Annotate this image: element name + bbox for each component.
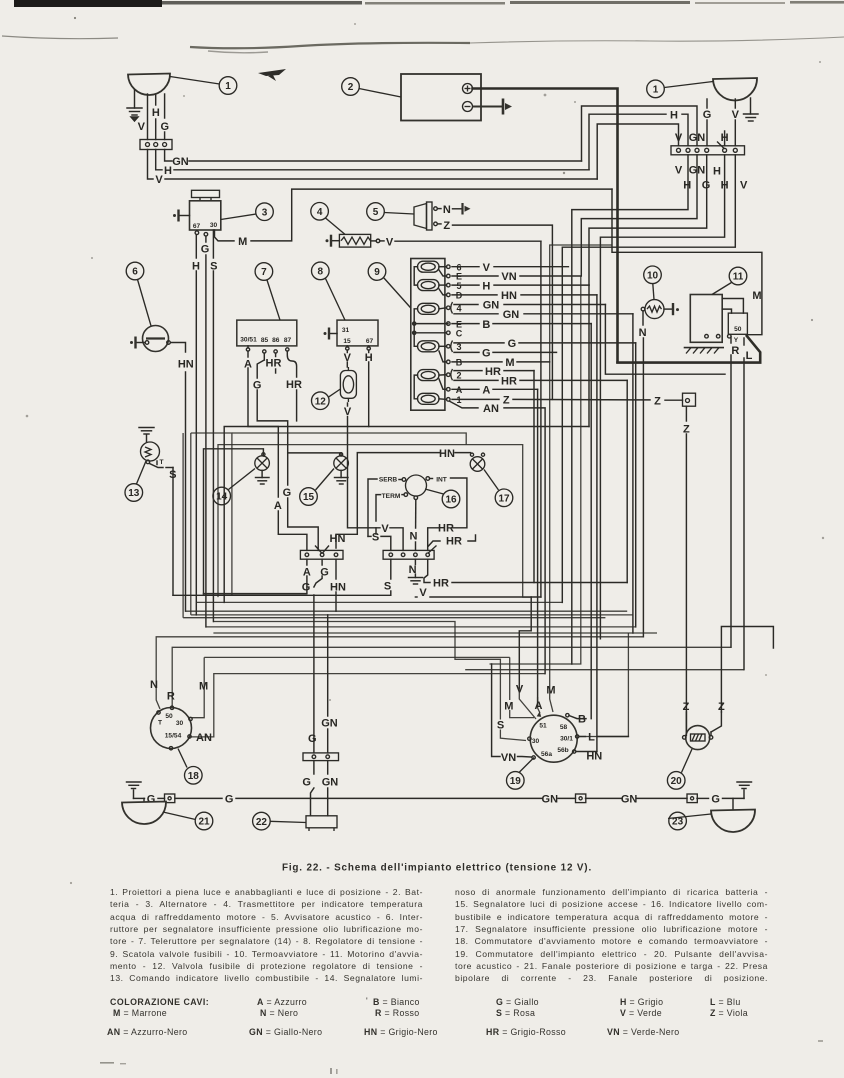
svg-text:A: A [535, 700, 543, 712]
svg-text:V: V [675, 165, 683, 177]
svg-text:18: 18 [188, 771, 200, 782]
svg-text:30/1: 30/1 [560, 736, 573, 743]
connector G/GN (above item 22) [303, 753, 339, 761]
wire frame rect outer [191, 433, 466, 595]
svg-text:G: G [508, 338, 517, 350]
svg-text:B: B [578, 714, 586, 726]
wire R from starter down [730, 337, 732, 647]
lamp 15 ground [335, 470, 349, 484]
fuel gauge (item 16) [402, 475, 430, 500]
rail VN y664 [490, 276, 581, 664]
svg-text:1: 1 [653, 85, 659, 96]
scan artifact scratch line [2, 36, 844, 53]
rail connector box 3 [687, 794, 697, 803]
wire Z right of button [711, 627, 773, 736]
svg-text:N: N [150, 679, 158, 691]
callout circle 11 [712, 267, 747, 294]
wire HR second [429, 535, 476, 546]
wire frame rail G jog [257, 420, 288, 422]
wire fuse row G lower [454, 351, 557, 353]
Z connector box [683, 393, 696, 406]
bottom rail wire [134, 797, 745, 799]
svg-text:13: 13 [128, 488, 140, 499]
bottom rail ground right [737, 782, 752, 798]
wire fuse row GN lower [454, 314, 633, 633]
svg-text:Fig. 22. - Schema dell'impiant: Fig. 22. - Schema dell'impianto elettric… [282, 863, 592, 874]
callout circle 6 [126, 262, 151, 326]
svg-text:V: V [516, 684, 524, 696]
svg-text:H: H [683, 180, 691, 192]
lamp 15 feed wire [288, 453, 341, 456]
svg-text:G: G [711, 794, 720, 806]
svg-text:HR: HR [433, 578, 449, 590]
wire S from alternator down [212, 230, 214, 622]
svg-text:A: A [303, 566, 311, 578]
callout circle 4 [311, 203, 345, 235]
svg-text:HN: HN [439, 448, 455, 460]
svg-text:19: 19 [510, 776, 522, 787]
rail AN y673.6 [191, 674, 545, 737]
svg-text:Z: Z [683, 701, 690, 713]
svg-text:GN: GN [689, 132, 706, 144]
item 6 ground lead [130, 337, 144, 349]
svg-text:S: S [384, 580, 391, 592]
svg-text:4: 4 [317, 207, 323, 218]
rail y602 [196, 601, 562, 603]
svg-text:H: H [670, 109, 678, 121]
svg-text:2: 2 [348, 82, 354, 93]
svg-text:HR: HR [438, 523, 454, 535]
wire N from item 10 [642, 311, 644, 637]
svg-text:A: A [244, 359, 252, 371]
wire INT to HR [428, 478, 467, 550]
wire HN to lamp 17 [336, 453, 471, 548]
svg-text:56b: 56b [557, 747, 568, 754]
tail lamp (item 23) [711, 798, 755, 832]
svg-text:G: G [201, 244, 210, 256]
svg-text:G: G [302, 581, 311, 593]
svg-text:G: G [253, 380, 262, 392]
svg-text:11: 11 [733, 272, 744, 283]
bottom rail ground left [127, 782, 142, 798]
svg-text:14: 14 [216, 492, 228, 503]
svg-text:10: 10 [647, 271, 659, 282]
rail R y647.3 [172, 647, 731, 707]
wire HR hook from relay 87 [287, 351, 296, 421]
ground of left headlamp [127, 90, 142, 121]
svg-text:C: C [456, 329, 463, 339]
connector strip right (under gauge) [383, 546, 436, 560]
wire pin2 drop to V trunk [572, 155, 688, 664]
bottom scan marks [100, 1040, 823, 1074]
starter terminals [705, 334, 731, 338]
wire lamp G pin [164, 94, 166, 140]
wire fuse row Z [452, 398, 683, 401]
fuse box pins [447, 265, 451, 401]
starter ground hatch [684, 348, 724, 354]
svg-text:G: G [283, 487, 292, 499]
fuse links to pins [439, 267, 447, 400]
svg-text:56a: 56a [541, 751, 552, 758]
svg-text:N: N [443, 204, 451, 216]
svg-text:HR: HR [446, 536, 462, 548]
svg-text:6: 6 [132, 267, 138, 278]
svg-text:23: 23 [672, 817, 684, 828]
rail S y621.5 [213, 622, 526, 741]
svg-text:G: G [482, 348, 491, 360]
svg-text:HN: HN [178, 359, 194, 371]
wire V jog to switch 19 [519, 597, 531, 688]
pilot lamp (item 17) [470, 453, 485, 471]
svg-text:H: H [365, 352, 373, 364]
callout circle 22 [253, 812, 306, 830]
svg-text:3: 3 [262, 207, 268, 218]
svg-text:H: H [152, 107, 160, 119]
callout circle 21 [163, 812, 213, 830]
wire pin4 drop to H trunk [589, 155, 707, 285]
connector block left lamp [140, 140, 172, 150]
svg-text:7: 7 [261, 267, 267, 278]
svg-text:HN: HN [501, 290, 517, 302]
light switch commutatore (item 19) [528, 711, 579, 762]
svg-text:51: 51 [539, 723, 547, 730]
svg-text:15/54: 15/54 [165, 733, 182, 740]
svg-text:H: H [192, 260, 200, 272]
svg-text:GN: GN [172, 156, 189, 168]
svg-text:R: R [167, 690, 175, 702]
callout circle 1 right [647, 80, 713, 98]
resistor (item 4) [339, 234, 370, 247]
wire M trunk to starter [612, 189, 762, 335]
svg-text:GN: GN [621, 794, 638, 806]
fuse valvola fusibile (item 12) [340, 367, 356, 402]
svg-text:9: 9 [374, 267, 380, 278]
alternator terminals [195, 231, 208, 236]
callout circle 14 [213, 469, 255, 505]
connector strip left (under lamps) [300, 546, 343, 560]
wire A from relay 30/51 [248, 346, 307, 551]
svg-text:G: G [225, 794, 234, 806]
wires below connector to rail [311, 761, 328, 816]
wire pin3 drop to VN trunk [581, 155, 697, 276]
svg-text:V: V [483, 262, 491, 274]
wire HN below left strip [335, 559, 337, 611]
rail HN y611 [186, 610, 628, 612]
wire H from connector to right [156, 150, 589, 170]
svg-text:V: V [740, 180, 748, 192]
svg-text:GN: GN [322, 777, 339, 789]
svg-text:31: 31 [342, 327, 350, 334]
wire S below strip [173, 559, 391, 595]
wire fuse row B [452, 323, 591, 325]
rail A lamp14 [204, 593, 307, 595]
wire Z from horn [438, 224, 553, 400]
rail battery y670 [465, 669, 744, 671]
svg-text:87: 87 [284, 337, 292, 344]
svg-text:T: T [159, 459, 163, 466]
svg-text:1: 1 [225, 81, 231, 92]
svg-text:V: V [381, 523, 389, 535]
svg-text:58: 58 [560, 724, 568, 731]
wire right lamp G pin [706, 99, 708, 146]
ignition switch (item 18) [151, 706, 193, 750]
wire V feed to right lamp [597, 124, 678, 179]
svg-text:8: 8 [318, 267, 324, 278]
wire short H jog pin5 [724, 131, 726, 146]
fuel sender (item 13) [139, 428, 160, 464]
svg-text:AN: AN [483, 403, 499, 415]
rail GN y614.9 [191, 433, 633, 615]
svg-text:M: M [752, 290, 761, 302]
wire H from regulator 67 [224, 285, 589, 602]
svg-text:GN: GN [483, 300, 500, 312]
wire SERB to S [368, 479, 402, 550]
svg-text:G: G [308, 733, 317, 745]
regulator terminal ticks [346, 347, 371, 350]
svg-text:G: G [320, 566, 329, 578]
regulator ground lead [324, 328, 338, 340]
callout circle 5 [367, 203, 414, 221]
svg-text:S: S [169, 469, 176, 481]
callout circle 7 [255, 263, 280, 320]
rail M y657.4 [191, 657, 510, 717]
wire A feed to switch19 [538, 697, 540, 713]
wire frame rect inner [218, 445, 531, 597]
relay terminal ticks [246, 348, 289, 353]
svg-text:HN: HN [330, 581, 346, 593]
svg-text:H: H [713, 166, 721, 178]
label M switch19 [504, 700, 515, 710]
wire V from regulator 15 to fuse 12 [346, 346, 348, 367]
svg-text:G: G [161, 121, 170, 133]
headlamp right (item 1) [713, 78, 757, 100]
fuse box left bus [413, 267, 448, 399]
pilot lamp (item 15) [334, 453, 349, 471]
wire V rail below strip [415, 596, 541, 598]
rail y633 [213, 632, 657, 634]
wire fuse row VN [452, 275, 581, 277]
svg-text:R: R [731, 345, 739, 357]
wire right lamp V pin [734, 99, 736, 146]
svg-text:V: V [344, 352, 352, 364]
svg-text:V: V [344, 406, 352, 418]
svg-text:B: B [482, 319, 490, 331]
wire M from terminal 30 [215, 189, 613, 241]
svg-text:Z: Z [503, 395, 510, 407]
svg-text:M: M [199, 681, 208, 693]
svg-text:L: L [746, 350, 753, 362]
callout circle 15 [300, 469, 334, 506]
wire fuse row HR upper [454, 371, 534, 583]
callout circle 3 [221, 203, 273, 221]
wire N ground below strip [409, 559, 423, 584]
svg-text:15: 15 [343, 338, 351, 345]
battery positive cable (thick) to trunk [473, 89, 761, 363]
wire lamp V pin [147, 94, 149, 140]
wire pin5 drop to HN trunk [600, 155, 724, 639]
label S switch19 [496, 720, 506, 730]
svg-text:L: L [588, 732, 595, 744]
wire G from relay 85 [257, 353, 318, 550]
svg-text:Y: Y [734, 337, 739, 344]
svg-text:H: H [164, 165, 172, 177]
svg-text:HR: HR [485, 366, 501, 378]
scan specks [26, 17, 825, 884]
svg-text:V: V [138, 121, 146, 133]
callout circle 20 [667, 749, 692, 789]
callout circle 17 [484, 470, 513, 507]
socket presa bipolare (item 22) [306, 816, 337, 831]
horn (item 5) [414, 202, 437, 230]
fuses inside box [418, 261, 440, 404]
rail connector box 1 [165, 794, 175, 803]
oil pressure switch (item 6) [143, 326, 171, 352]
svg-text:22: 22 [256, 817, 268, 828]
svg-text:HR: HR [501, 376, 517, 388]
svg-text:85: 85 [261, 337, 269, 344]
wire GN from connector to right [165, 150, 582, 162]
wire fuse row G upper [454, 343, 636, 627]
svg-text:30: 30 [210, 222, 218, 229]
svg-text:V: V [732, 109, 740, 121]
lamp 14 ground [256, 470, 270, 484]
wire fuse row HR lower [454, 380, 627, 582]
svg-text:N: N [639, 327, 647, 339]
wire V from resistor [371, 239, 541, 597]
callout circle 16 [425, 489, 460, 508]
wire HN from item 6 [171, 343, 186, 612]
scan smudge arrow mark top center [258, 69, 286, 81]
battery negative to chassis ground [473, 99, 513, 115]
charge warning light (item 10) [641, 300, 664, 319]
wire fuse row HN [452, 294, 597, 296]
svg-text:Z: Z [443, 220, 450, 232]
svg-text:N: N [410, 531, 418, 543]
svg-text:17: 17 [498, 494, 510, 505]
svg-text:Z: Z [718, 701, 725, 713]
svg-text:GN: GN [542, 794, 559, 806]
svg-text:V: V [155, 174, 163, 186]
svg-text:V: V [386, 236, 394, 248]
ground of right headlamp [744, 98, 759, 121]
svg-text:16: 16 [445, 495, 457, 506]
wire L from solenoid down [743, 338, 745, 670]
svg-text:V: V [419, 587, 427, 599]
svg-text:M: M [546, 685, 555, 697]
wire Z below box to horn button [685, 406, 687, 734]
wire H feed to right lamp [589, 114, 688, 170]
svg-text:G: G [302, 777, 311, 789]
svg-text:HR: HR [266, 358, 282, 370]
svg-text:GN: GN [503, 309, 520, 321]
rail connector box 2 [576, 794, 586, 803]
horn button (item 20) [683, 726, 713, 750]
svg-text:30/51: 30/51 [240, 337, 257, 344]
wire fuse row A [452, 389, 538, 705]
svg-text:67: 67 [193, 223, 201, 230]
wire fuse AN diagonal [450, 402, 545, 674]
callout circle 18 [178, 749, 202, 785]
wire pin6 drop to trunk [562, 155, 735, 603]
svg-text:T: T [158, 720, 162, 727]
svg-text:V: V [675, 132, 683, 144]
svg-text:N: N [409, 564, 417, 576]
wire L from switch19 [579, 736, 628, 738]
svg-text:TERM: TERM [382, 493, 401, 500]
fuse box scatola valvole (item 9) [411, 259, 445, 411]
horn N ground [438, 203, 471, 215]
scan artifact top black strip [14, 0, 844, 7]
callout circle 13 [125, 461, 146, 501]
svg-text:50: 50 [734, 326, 742, 333]
wire VN from switch19 [492, 664, 532, 757]
starter motor (item 11) [690, 295, 747, 343]
wire lamp H pin [155, 95, 157, 140]
lamp 14 feed wire [204, 449, 264, 594]
callout circle 2 [342, 78, 401, 97]
rail N y636.8 [156, 637, 643, 709]
battery (item 2) [401, 74, 481, 121]
voltage regulator (item 8) [337, 320, 378, 346]
svg-text:AN: AN [196, 732, 212, 744]
tail lamp (item 21) [122, 798, 166, 824]
svg-text:M: M [505, 357, 514, 369]
wire A below left strip [204, 559, 307, 593]
pin id labels [456, 262, 463, 405]
wire G below left strip [314, 559, 322, 753]
svg-text:INT: INT [436, 477, 447, 484]
wire fuse row M [452, 361, 550, 363]
wire fuse row V [452, 266, 568, 268]
svg-text:15: 15 [303, 492, 315, 503]
wire V feed to switch19 [519, 688, 536, 719]
svg-text:HN: HN [586, 751, 602, 763]
alternator (item 3) [190, 190, 221, 230]
rail L y679 [579, 633, 629, 737]
svg-text:30: 30 [176, 720, 184, 727]
callout circle 12 [312, 389, 341, 410]
wire HR from relay 86 [275, 353, 277, 373]
svg-text:S: S [497, 719, 504, 731]
connector block right lamp [671, 142, 745, 155]
svg-text:SERB: SERB [379, 477, 398, 484]
svg-text:2: 2 [456, 370, 461, 380]
callout circle 1 left [170, 77, 237, 95]
svg-text:HR: HR [286, 379, 302, 391]
rail G y626.9 [206, 626, 636, 628]
svg-text:12: 12 [315, 396, 327, 407]
svg-text:50: 50 [165, 713, 173, 720]
svg-text:21: 21 [198, 817, 210, 828]
wire M2 feed to switch19 [550, 362, 553, 712]
callout circle 8 [312, 262, 346, 320]
wire GN down to connector [327, 615, 329, 753]
item 10 ground lead right [664, 303, 679, 315]
wire M feed to switch19 [510, 657, 534, 717]
wire GN feed to right lamp [582, 106, 698, 161]
svg-text:HN: HN [330, 533, 346, 545]
svg-text:30: 30 [532, 738, 540, 745]
wire TERM to V [376, 495, 404, 551]
wire fuse row GN upper [454, 305, 725, 375]
svg-text:G: G [703, 109, 712, 121]
rail frame bottom y617.7 [183, 433, 605, 618]
resistor ground lead [326, 235, 340, 247]
svg-text:VN: VN [501, 271, 516, 283]
wire M up from fuse M row [550, 245, 612, 362]
callout circle 10 [644, 266, 662, 300]
alternator ground lead [173, 210, 190, 222]
